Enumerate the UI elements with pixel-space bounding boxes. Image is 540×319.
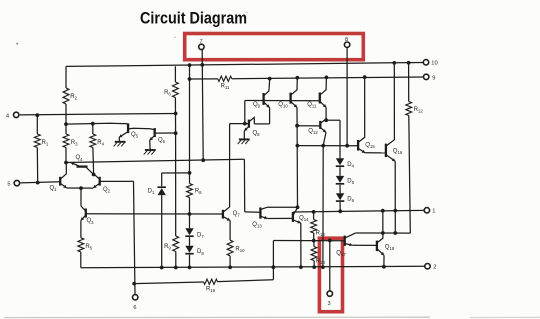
svg-text:10: 10 [431,60,437,66]
svg-text:Q7: Q7 [233,211,241,218]
wire Q3/Q7 base line [86,213,223,215]
resistor R19 [204,279,218,293]
svg-text:1: 1 [432,209,435,215]
wire pin3 column [329,241,331,292]
svg-text:R5: R5 [85,244,92,251]
terminal pin 3 [327,291,332,307]
svg-text:5: 5 [7,181,10,187]
svg-text:D1: D1 [148,189,155,196]
terminal pin 1 [424,208,435,215]
wire rail to Q13 base [244,159,260,212]
wire Q8 base line [230,101,249,124]
svg-text:R10: R10 [235,246,245,253]
title text [140,9,247,27]
wire pin8 column [346,47,348,145]
terminal pin 4 [6,112,19,119]
svg-text:Q9: Q9 [253,102,261,109]
svg-text:D4: D4 [347,162,354,169]
scan speck [16,12,248,45]
ground below Q6 [144,150,156,155]
wire Q1-Q2 emitter tie [67,188,94,206]
svg-text:Q11: Q11 [307,102,317,109]
transistor Q2 [93,174,110,194]
wire output line to pin 1 [293,210,424,212]
svg-text:3: 3 [327,301,330,307]
transistor Q7 [223,207,240,240]
ground below Q8 [238,139,250,144]
wire collector bus line [355,232,410,234]
terminal pin 6 [133,295,138,312]
transistor Q12 [297,119,326,146]
svg-text:Q17: Q17 [336,251,346,258]
svg-text:R4: R4 [97,140,104,147]
wire pin4 input line [20,113,176,114]
wire Q13 collector tie [267,206,298,208]
resistor R11 [218,76,232,90]
transistor Q14 [293,208,309,224]
wire D1 to R8 column [162,172,190,174]
resistor R10 [227,240,245,267]
wire top supply rail (pin 7 to pin 10) [66,62,424,66]
red highlight box around pin 3 [319,238,342,312]
wire Q8 collector tie [254,108,269,124]
wire mid rail (Q4 line east to Q13 base) [66,159,244,162]
wire Q11 emitter column [325,107,327,120]
svg-text:R1: R1 [42,140,49,147]
resistor R13 [311,212,326,241]
wire Q12 emitter column [322,146,324,268]
terminal pin 8 [344,37,349,48]
wire pin7 column [202,50,203,160]
resistor R1 [34,115,48,182]
wire pin6 column [134,181,136,294]
wire bottom line to pin 2 [81,266,425,267]
transistor Q11 [307,77,326,108]
transistor Q15 [358,77,375,153]
wire Q7 collector column [229,124,231,207]
svg-text:4: 4 [6,113,10,119]
svg-text:Q16: Q16 [393,148,403,155]
svg-text:R13: R13 [316,231,326,238]
wire pin6/R19 bottom line [134,280,273,284]
svg-text:D5: D5 [347,179,354,186]
transistor Q1 [49,163,66,193]
resistor R5 [78,238,93,268]
svg-text:9: 9 [432,75,435,81]
svg-text:R3: R3 [71,140,78,147]
transistor Q6 [150,128,176,149]
transistor Q4 [71,155,94,174]
diode D8 [185,246,204,268]
svg-text:R9: R9 [164,244,171,251]
svg-text:Q8: Q8 [252,131,260,138]
svg-text:R11: R11 [221,84,230,91]
diode D5 [336,176,355,193]
svg-text:R8: R8 [195,189,202,196]
diode D6 [336,193,355,211]
svg-text:D6: D6 [347,197,354,204]
red highlight box around pins 7 and 8 [185,34,364,60]
svg-text:Q3: Q3 [86,218,94,225]
wire diode chain feed [326,120,340,158]
wire Q14 emitter column [300,223,302,267]
svg-text:R6: R6 [164,90,171,97]
transistor Q3 [81,206,94,238]
resistor R3 [63,124,78,162]
svg-text:Q14: Q14 [299,216,309,223]
svg-text:Q13: Q13 [252,222,262,229]
svg-text:Q1: Q1 [49,186,57,193]
transistor Q16 [386,63,403,161]
transistor Q10 [278,78,297,109]
svg-text:R14: R14 [316,258,326,265]
svg-text:Q2: Q2 [103,187,111,194]
svg-text:Q4: Q4 [75,155,83,162]
svg-text:Q18: Q18 [385,244,395,251]
resistor R14 [311,241,325,268]
transistor Q13 [252,207,267,228]
svg-text:R12: R12 [414,107,424,114]
wire Q13 emitter tie [267,217,292,219]
resistor R2 [63,66,78,124]
resistor R8 [187,65,203,228]
resistor R9 [164,236,179,268]
svg-text:6: 6 [133,305,136,311]
terminal pin 7 [199,39,204,50]
wire R2/R4 tap line [66,122,128,125]
wire Q17 base line [273,240,344,242]
transistor Q8 [244,117,260,138]
terminal pin 9 [424,74,436,81]
wire Q9/Q10/Q11 base line [245,100,320,102]
svg-text:Q15: Q15 [365,142,375,149]
diode D4 [336,158,355,176]
wire Q17 emitter to Q18 base [352,244,376,246]
terminal pin 5 [7,180,19,187]
terminal pin 10 [423,60,437,67]
svg-text:Q12: Q12 [308,129,318,136]
transistor Q9 [253,79,270,109]
wire Q15 emitter to Q16 base [365,152,385,154]
scan artifact bottom edge [4,316,540,318]
svg-text:8: 8 [345,37,348,43]
svg-text:Q5: Q5 [131,132,139,139]
wire R19 riser [272,241,274,280]
svg-text:D8: D8 [197,249,204,256]
resistor R12 [406,63,423,233]
svg-text:R19: R19 [206,286,216,293]
transistor Q18 [377,211,395,256]
diode D1 (zener) [148,173,166,268]
transistor Q5 [119,123,154,140]
svg-text:D7: D7 [197,232,204,239]
svg-text:2: 2 [433,264,436,270]
wire Q16 emitter column [394,161,396,233]
wire Q18 emitter column [383,255,385,267]
wire second rail to pin 9 [190,77,424,79]
diode D7 [185,228,204,246]
svg-text:Circuit Diagram: Circuit Diagram [140,9,247,27]
wire Q10 emitter column [296,107,299,207]
resistor R4 [90,124,105,175]
svg-text:R2: R2 [70,94,77,101]
svg-text:7: 7 [199,39,202,45]
wire Q2 base line [100,180,133,182]
ground below Q5 [114,142,126,147]
svg-text:Q10: Q10 [278,102,288,109]
wire Q15 base line [297,145,357,147]
transistor Q17 [336,233,355,257]
resistor R6 [164,66,178,236]
svg-text:Q6: Q6 [158,138,166,145]
wire pin5 input line [21,182,60,183]
terminal pin 2 [425,264,437,271]
